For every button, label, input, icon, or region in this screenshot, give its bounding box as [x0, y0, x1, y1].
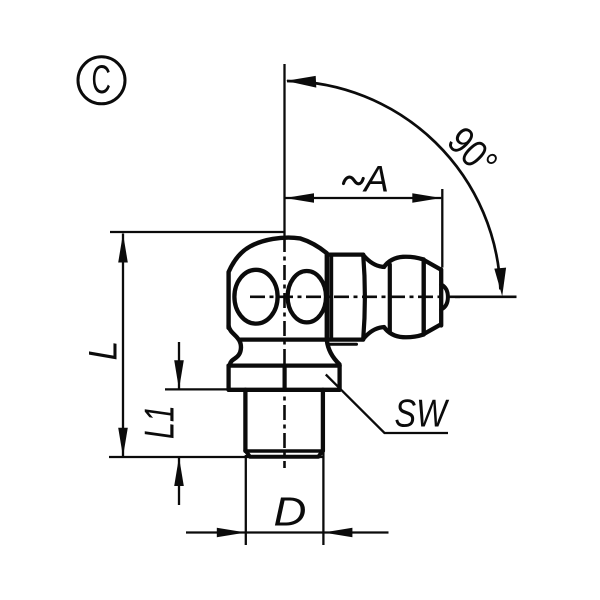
- svg-text:SW: SW: [395, 392, 450, 435]
- svg-text:L1: L1: [136, 405, 183, 439]
- svg-text:C: C: [91, 58, 110, 103]
- svg-text:L: L: [82, 341, 126, 361]
- svg-text:D: D: [274, 490, 307, 535]
- svg-text:A: A: [362, 159, 389, 200]
